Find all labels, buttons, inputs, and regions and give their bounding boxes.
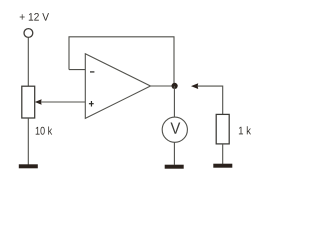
wire wiper to +input xyxy=(41,101,86,103)
label 1 k xyxy=(239,126,251,134)
ground left xyxy=(19,164,38,168)
plus input label xyxy=(89,103,94,104)
label V xyxy=(171,122,181,133)
op-amp U1 xyxy=(85,54,150,119)
terminal circle xyxy=(24,29,33,38)
label +12V xyxy=(20,13,49,21)
node dot xyxy=(172,83,178,89)
load arrow xyxy=(191,83,198,89)
minus input label xyxy=(90,71,94,72)
potentiometer R1 box xyxy=(22,86,35,118)
wire pot bottom to ground xyxy=(27,118,29,165)
wire arrow to resistor xyxy=(197,86,222,114)
ground middle xyxy=(165,165,184,169)
feedback wire xyxy=(69,37,174,86)
wire voltmeter to ground xyxy=(173,142,175,165)
ground right xyxy=(213,164,232,168)
wire resistor to ground xyxy=(222,144,224,164)
output wire xyxy=(151,85,175,87)
wiper arrow xyxy=(35,99,42,105)
voltmeter V1 xyxy=(162,117,187,142)
label 10 k xyxy=(36,126,53,134)
minus input wire xyxy=(69,69,85,71)
wire node to voltmeter xyxy=(173,86,175,117)
resistor R2 box xyxy=(216,114,229,143)
wire supply to potentiometer xyxy=(27,38,29,87)
